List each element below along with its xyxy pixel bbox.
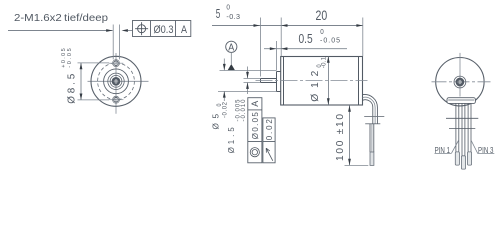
- 0.5 dim leader line: [264, 48, 347, 50]
- feature control frame position Ø0.3 A: [133, 21, 191, 37]
- back view vertical centerline: [459, 53, 461, 97]
- connector cap inner line: [448, 99, 474, 101]
- runout symbol arrow: [266, 148, 273, 161]
- wire break tick 1 (side view): [364, 116, 384, 118]
- svg-text:-0.05: -0.05: [67, 48, 73, 68]
- datum A circle: [226, 41, 237, 52]
- svg-text:100 ±10: 100 ±10: [335, 114, 346, 161]
- wire bundle exiting rear face (bend): [363, 94, 378, 116]
- svg-text:-0.05: -0.05: [320, 38, 340, 45]
- front view vertical centerline: [115, 53, 117, 114]
- 0.5 boss face extension line: [276, 41, 278, 71]
- svg-text:Ø1.5: Ø1.5: [227, 127, 236, 154]
- front view step circle: [104, 69, 129, 94]
- side view body rectangle: [281, 57, 363, 106]
- svg-text:Ø0.3: Ø0.3: [154, 24, 174, 36]
- wire bundle lower run: [370, 124, 374, 152]
- fcf leader arrowhead (points left): [122, 29, 128, 32]
- 0.5 arrowhead right-pointing: [270, 47, 276, 50]
- svg-text:Ø5: Ø5: [211, 114, 220, 130]
- wire end terminal (side view): [370, 152, 374, 165]
- connector pins / wires: [456, 103, 471, 155]
- 0.5 arrowhead left-pointing: [281, 47, 287, 50]
- Ø5 upper dim stub + arrow: [223, 59, 225, 71]
- side view front end cap line: [283, 57, 285, 106]
- Ø8.5 dim extension line bottom: [78, 99, 110, 101]
- extension line body front face: [280, 18, 282, 57]
- back view horizontal centerline: [432, 81, 491, 83]
- Ø5 lower dim stub + arrow: [223, 91, 225, 101]
- svg-text:5: 5: [216, 6, 221, 21]
- Ø8.5 dim extension line top: [78, 62, 110, 64]
- svg-text:2-M1.6x2 tief/deep: 2-M1.6x2 tief/deep: [14, 13, 108, 24]
- extension line shaft tip: [260, 18, 262, 77]
- thread note leader arrowhead: [106, 29, 112, 32]
- boss top extension line: [220, 70, 277, 72]
- boss bottom extension line: [218, 91, 276, 93]
- svg-text:20: 20: [316, 8, 328, 23]
- side view rear end cap line: [358, 57, 360, 106]
- shaft bottom extension line: [244, 82, 261, 84]
- hole edge extension line left: [112, 25, 114, 60]
- datum stem: [230, 52, 232, 64]
- arrowhead at body front face (points left): [281, 24, 287, 27]
- vertical fcf box runout 0.02: [263, 118, 275, 163]
- connector cap: [447, 98, 475, 104]
- svg-text:-0.1: -0.1: [320, 56, 327, 68]
- extension line body rear: [362, 18, 364, 57]
- Ø1.5 upper dim stub + arrow: [247, 67, 249, 79]
- 100 ±10 extension line at wire end: [345, 165, 369, 167]
- fcf leader line: [128, 30, 133, 32]
- svg-text:0.5: 0.5: [299, 32, 313, 46]
- position symbol: [135, 22, 148, 35]
- side view shaft: [261, 79, 277, 83]
- Ø8.5 dim arrowheads: [80, 63, 83, 69]
- front view shaft slot detail: [114, 80, 117, 84]
- bottom screw hole M1.6: [109, 96, 124, 103]
- top dimension line (5 / 20): [212, 25, 363, 27]
- svg-text:Ø0.05: Ø0.05: [251, 112, 260, 140]
- front view outer circle (motor body Ø12): [91, 56, 141, 106]
- front view shaft hub dark ring: [112, 77, 121, 86]
- svg-text:Ø8.5: Ø8.5: [67, 73, 78, 104]
- wire break tick 1 (back view): [446, 117, 478, 119]
- front view horizontal centerline: [88, 80, 149, 82]
- wire 1 terminal: [455, 152, 459, 165]
- shaft top extension line: [244, 78, 261, 80]
- svg-text:Ø12: Ø12: [310, 70, 321, 101]
- back view hub dark ring: [456, 78, 465, 87]
- svg-text:0.02: 0.02: [265, 119, 274, 141]
- svg-text:-0.010: -0.010: [241, 99, 247, 122]
- arrowhead at shaft tip extension (points right): [254, 24, 260, 27]
- vertical fcf box concentricity Ø0.05 A: [248, 98, 262, 163]
- svg-text:-0.02: -0.02: [222, 101, 228, 118]
- wire break tick 2 (back view): [449, 128, 475, 130]
- svg-text:A: A: [228, 42, 234, 53]
- wire 2 terminal: [461, 156, 465, 169]
- back view circle: [436, 57, 484, 105]
- 100 ±10 dimension line: [349, 105, 351, 165]
- svg-text:A: A: [181, 24, 187, 36]
- svg-text:0: 0: [226, 3, 230, 12]
- front view bolt pitch circle Ø8.5 (dashed): [98, 63, 135, 100]
- arrowhead at body rear (points right): [356, 24, 362, 27]
- Ø8.5 tolerance text (rotated): [61, 48, 73, 68]
- thread note leader line: [8, 30, 113, 32]
- side view front bearing boss: [277, 72, 281, 92]
- top screw hole M1.6: [109, 60, 124, 67]
- back view hub outer thin circle: [454, 76, 466, 88]
- concentricity symbol: [250, 148, 259, 157]
- svg-text:-0.3: -0.3: [226, 12, 240, 21]
- front view small step circle: [108, 73, 124, 89]
- wire break tick 2 (side view): [365, 123, 380, 125]
- wire 3 terminal: [468, 152, 472, 165]
- front view hub ring: [110, 75, 122, 87]
- back view hub slot detail: [458, 80, 461, 84]
- datum triangle: [228, 64, 235, 70]
- svg-text:0: 0: [320, 29, 324, 36]
- wire bundle between ticks: [373, 117, 378, 124]
- Ø1.5 lower dim stub + arrow: [247, 83, 249, 95]
- side view axis centerline: [256, 80, 368, 82]
- Ø8.5 dimension line: [80, 63, 82, 100]
- hole edge extension line right: [119, 25, 121, 60]
- Ø12 dimension line inside body: [328, 57, 330, 105]
- svg-text:A: A: [250, 101, 260, 107]
